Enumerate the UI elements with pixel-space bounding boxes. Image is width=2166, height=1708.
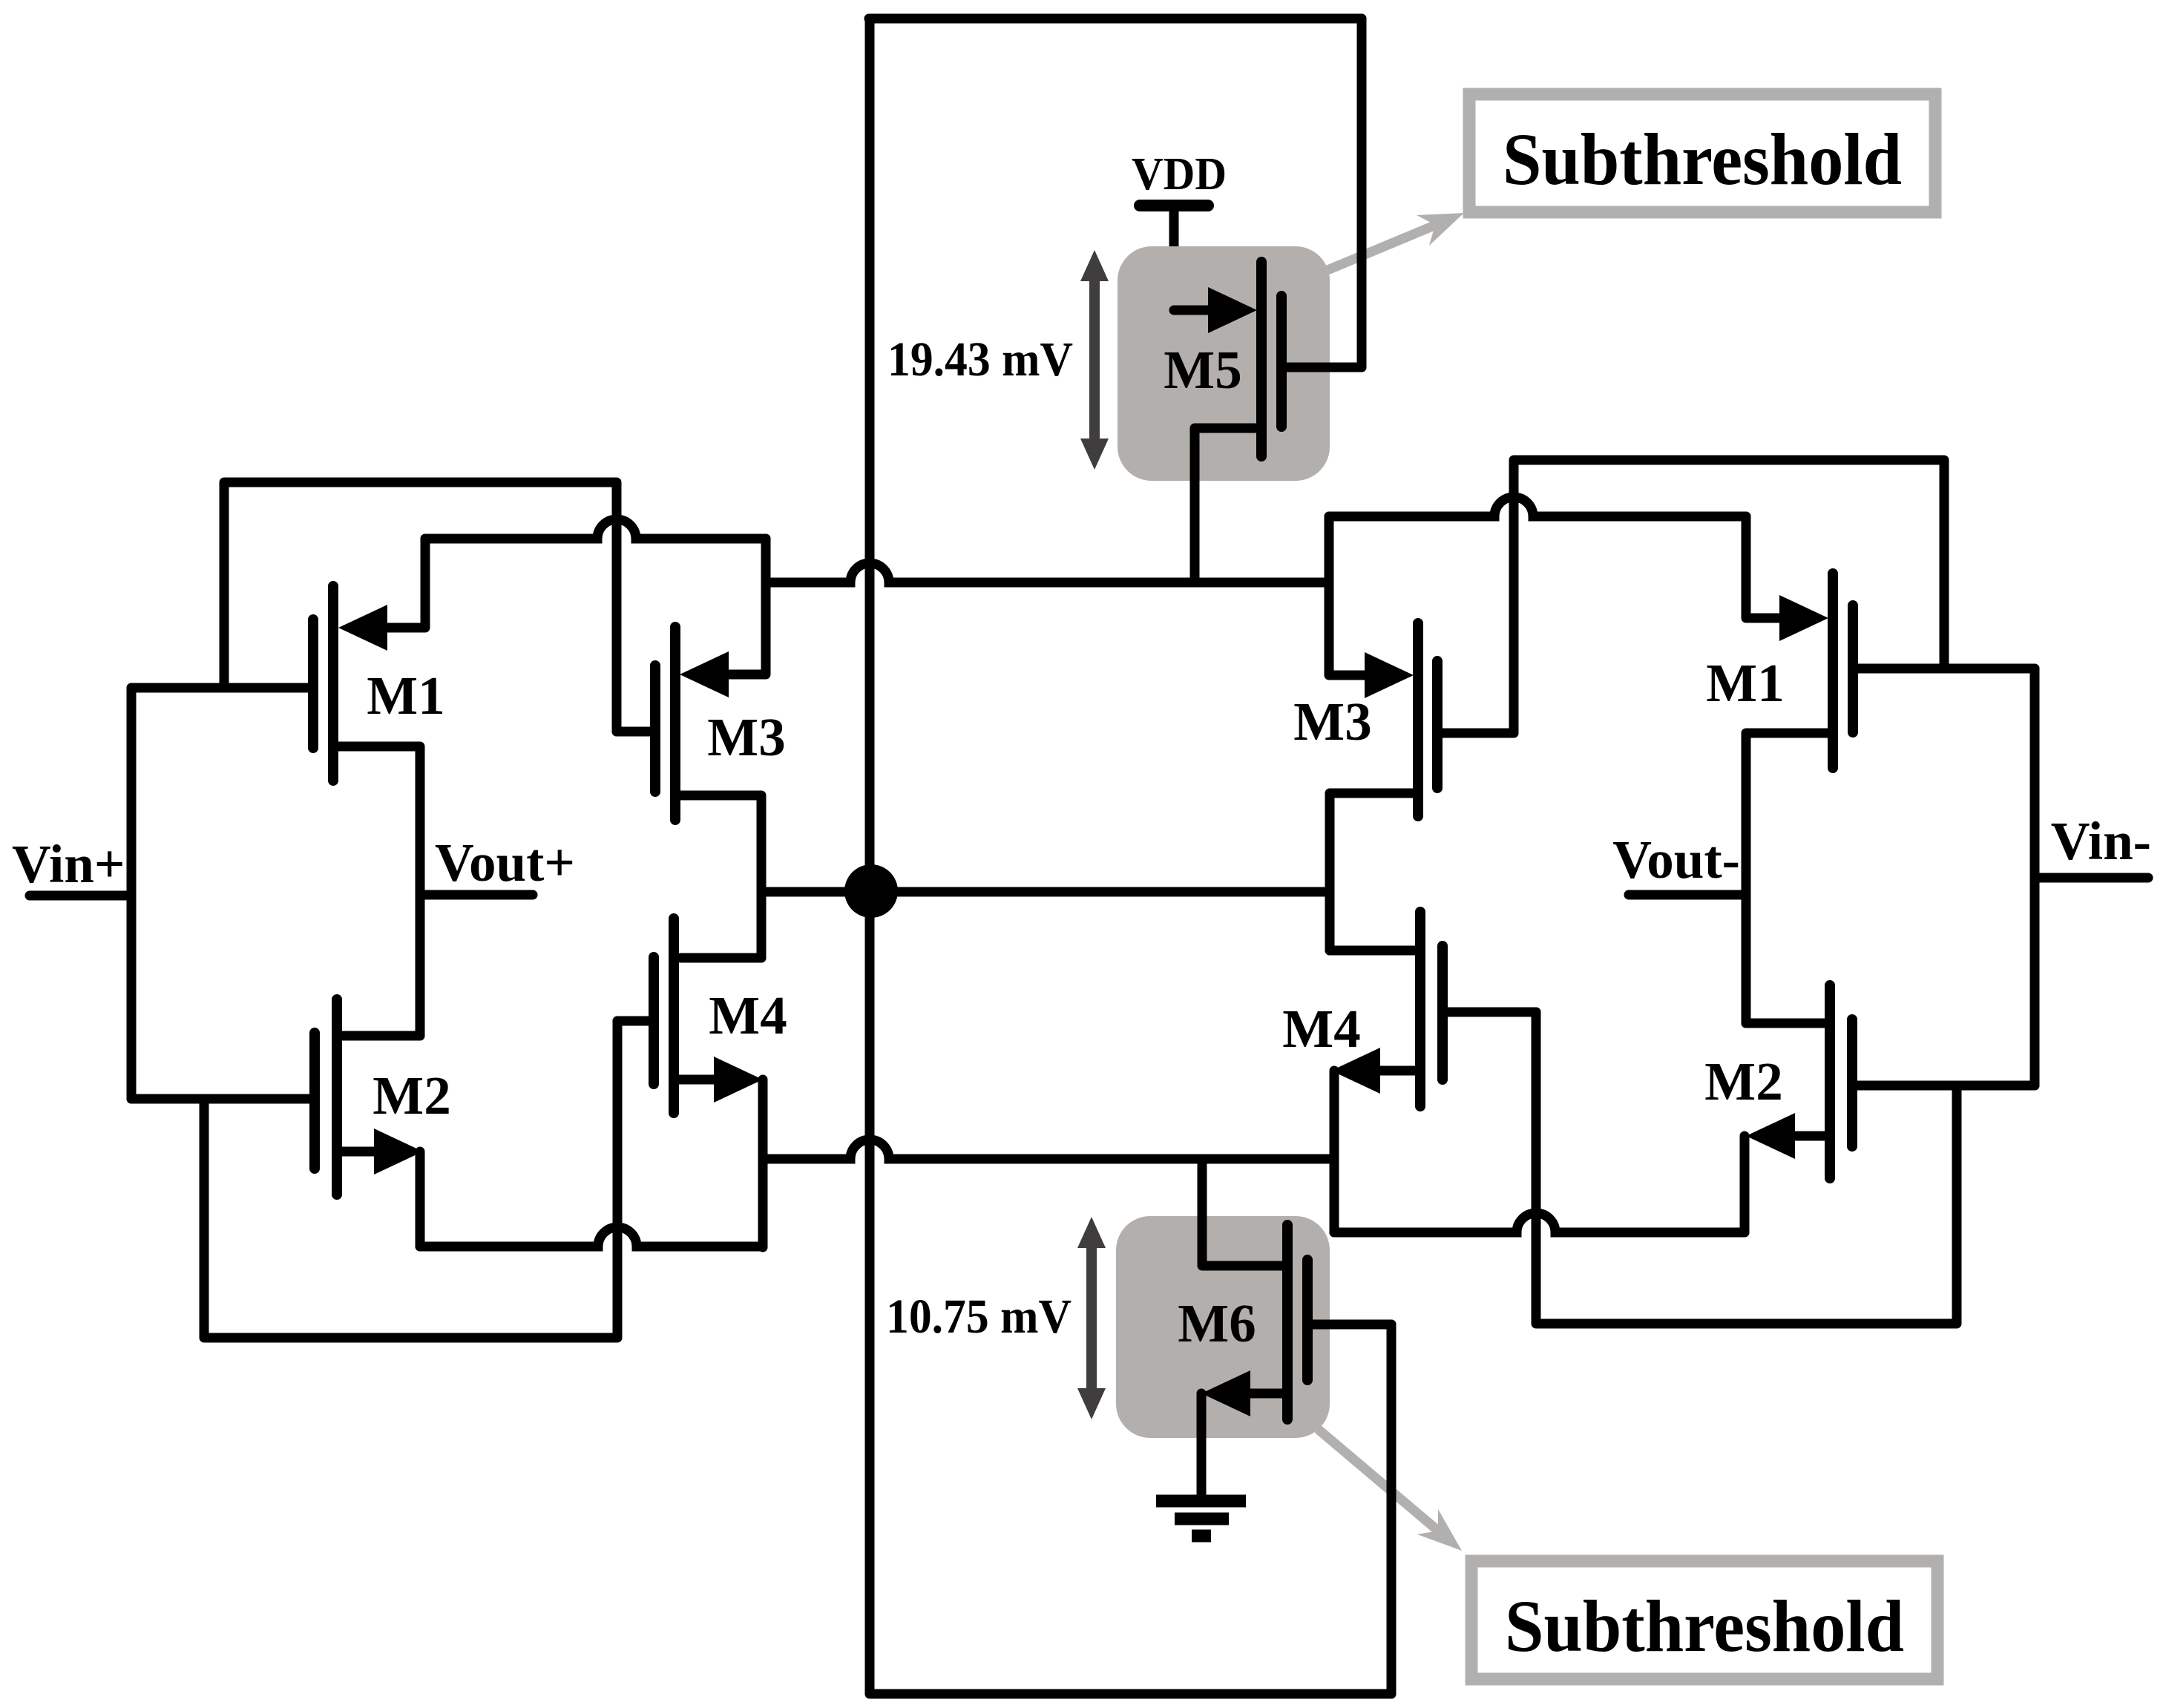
- transistor M1 drain lead with arrow: [338, 539, 425, 651]
- wire: right bottom feedback loop (M4 gate to M2 gate): [1536, 1012, 1957, 1324]
- svg-text:M2: M2: [373, 1065, 450, 1126]
- dimension double-arrow 19.43 mV: [1080, 250, 1109, 470]
- svg-text:M4: M4: [709, 985, 787, 1045]
- ground symbol: [1156, 1501, 1246, 1536]
- svg-text:M1: M1: [367, 666, 444, 726]
- transistor M4 (right) gate bar: [1437, 946, 1448, 1080]
- transistor M1 (right) source lead: [1746, 733, 1828, 1023]
- callout arrow to top Subthreshold box: [1328, 213, 1464, 270]
- transistor M5 gate bar: [1276, 296, 1287, 427]
- transistor M5 source lead: [1195, 428, 1261, 582]
- wire: Vout+ lead: [420, 890, 533, 900]
- wire: right M2-source horizontal to M4 source, hops M4-gate vertical: [1334, 1213, 1745, 1232]
- transistor M1 (right) drain lead with arrow: [1746, 516, 1828, 641]
- transistor M2 (right) source lead with arrow: [1745, 1113, 1825, 1232]
- transistor M1 gate lead: [131, 683, 313, 693]
- transistor M1 (right) label: [1706, 653, 1784, 713]
- transistor M5 gray highlight box: [1118, 246, 1330, 481]
- transistor M3 (right) drain lead with arrow: [1329, 516, 1414, 698]
- transistor M1 channel bar: [328, 586, 338, 781]
- transistor M2 gate lead: [131, 1094, 315, 1104]
- transistor M1 label: [367, 666, 444, 726]
- transistor M3 (right) gate lead: [1437, 729, 1514, 738]
- callout label Subthreshold (bottom): [1505, 1585, 1904, 1667]
- svg-text:Vout-: Vout-: [1612, 830, 1740, 890]
- svg-text:M6: M6: [1178, 1293, 1256, 1353]
- svg-text:10.75 mV: 10.75 mV: [886, 1290, 1071, 1344]
- transistor M3 label: [707, 707, 785, 767]
- port label Vout+: [435, 832, 575, 893]
- transistor M2 (right) channel bar: [1825, 985, 1835, 1178]
- wire: upper bus (left cell to right cell, hops central vertical): [766, 563, 1329, 582]
- port label Vin+: [12, 834, 125, 894]
- transistor M2 channel bar: [332, 999, 342, 1195]
- transistor M6 gate lead: [1312, 1320, 1391, 1330]
- wire: left M2-source horizontal to M4 source, hops M4-gate vertical: [420, 1227, 763, 1246]
- svg-text:19.43 mV: 19.43 mV: [887, 332, 1073, 387]
- svg-text:Vin-: Vin-: [2051, 811, 2151, 871]
- svg-text:Vout+: Vout+: [435, 832, 575, 893]
- transistor M3 gate lead: [617, 727, 655, 737]
- transistor M2 (right) gate bar: [1847, 1019, 1857, 1146]
- wire: Vin+ lead: [30, 891, 131, 901]
- transistor M3 channel bar: [670, 627, 680, 820]
- transistor M1 (right) gate bar: [1848, 605, 1858, 732]
- transistor M4 drain lead: [680, 953, 761, 963]
- transistor M1 source lead: [338, 746, 420, 1036]
- transistor M3 source lead: [680, 795, 761, 958]
- transistor M2 drain lead: [337, 1031, 420, 1041]
- transistor M4 label: [709, 985, 787, 1045]
- wire: right cross-couple rail (M3 gate to M1 gate): [1514, 460, 1944, 733]
- transistor M5 drain lead with arrow: [1174, 287, 1257, 333]
- transistor M5 label: [1164, 340, 1241, 400]
- transistor M2 (right) gate lead: [1852, 1081, 2035, 1091]
- dimension double-arrow 10.75 mV: [1077, 1217, 1106, 1419]
- transistor M6 source lead with arrow: [1201, 1370, 1287, 1495]
- transistor M2 label: [373, 1065, 450, 1126]
- value label 19.43 mV: [887, 332, 1073, 387]
- wire: left bottom feedback loop (M2 gate to M4 gate): [204, 1021, 617, 1338]
- wire: bottom box right side up to M6 gate: [1387, 1324, 1397, 1694]
- wire: Vin- lead: [2035, 873, 2148, 883]
- wire: top box top edge: [869, 14, 1362, 24]
- svg-text:M5: M5: [1164, 340, 1241, 400]
- transistor M1 (right) channel bar: [1828, 574, 1838, 768]
- port label Vout-: [1612, 830, 1740, 890]
- net label VDD: [1132, 149, 1227, 200]
- node VDD symbol: [1140, 206, 1208, 310]
- transistor M4 (right) label: [1282, 999, 1360, 1059]
- transistor M1 (right) gate lead: [1858, 664, 2035, 674]
- svg-text:Subthreshold: Subthreshold: [1505, 1585, 1904, 1667]
- transistor M6 label: [1178, 1293, 1256, 1353]
- svg-text:M3: M3: [707, 707, 785, 767]
- callout box Subthreshold (bottom): [1471, 1561, 1937, 1679]
- transistor M1 gate bar: [308, 620, 318, 748]
- transistor M6 drain lead: [1202, 1159, 1283, 1266]
- transistor M6 channel bar: [1282, 1225, 1293, 1419]
- transistor M6 gray highlight box: [1116, 1216, 1330, 1438]
- value label 10.75 mV: [886, 1290, 1071, 1344]
- transistor M2 gate bar: [309, 1033, 320, 1169]
- transistor M4 (right) channel bar: [1415, 912, 1425, 1106]
- wire: lower bus (left cell to right cell, hops central vertical): [763, 1140, 1334, 1159]
- transistor M6 gate bar: [1302, 1260, 1313, 1380]
- transistor M3 (right) label: [1293, 692, 1371, 752]
- transistor M2 (right) drain lead: [1746, 1019, 1825, 1028]
- transistor M2 (right) label: [1704, 1051, 1782, 1111]
- transistor M4 channel bar: [669, 919, 679, 1113]
- wire: left cross-couple rail (M1 gate to M3 gate): [224, 482, 617, 732]
- wire: Vout- lead: [1629, 890, 1745, 900]
- transistor M4 gate bar: [649, 957, 659, 1084]
- wire: top box right side down to M5 gate: [1357, 19, 1367, 367]
- svg-text:M3: M3: [1293, 692, 1371, 752]
- transistor M5 channel bar: [1256, 262, 1267, 456]
- svg-text:M2: M2: [1704, 1051, 1782, 1111]
- wire: central vertical (top box left side down to bottom box): [865, 19, 875, 1694]
- transistor M4 source lead with arrow: [679, 1057, 763, 1247]
- wire: left input vertical (Vin+ to M1/M2 gates): [127, 688, 137, 1099]
- transistor M3 gate bar: [650, 666, 660, 792]
- transistor M4 (right) gate lead: [1443, 1008, 1536, 1017]
- transistor M3 drain lead with arrow: [680, 539, 766, 697]
- transistor M3 (right) gate bar: [1432, 661, 1443, 788]
- wire: bottom box bottom edge: [870, 1689, 1391, 1699]
- wire: left inner rail (M1 drain to M3 drain), hops cross-couple vertical: [425, 519, 766, 539]
- wire: right input vertical (M1 gate to M2 gate): [2030, 669, 2040, 1085]
- callout box Subthreshold (top): [1469, 94, 1935, 212]
- callout label Subthreshold (top): [1503, 118, 1902, 200]
- transistor M4 (right) source lead with arrow: [1331, 1048, 1416, 1232]
- svg-text:M4: M4: [1282, 999, 1360, 1059]
- wire: center bus (Vout node line): [761, 887, 1330, 897]
- svg-text:M1: M1: [1706, 653, 1784, 713]
- callout arrow to bottom Subthreshold box: [1318, 1429, 1462, 1551]
- transistor M4 gate lead: [617, 1016, 654, 1026]
- node junction dot (center bus / central vertical): [844, 864, 898, 918]
- svg-text:Vin+: Vin+: [12, 834, 125, 894]
- transistor M5 gate lead: [1286, 363, 1362, 372]
- transistor M2 source lead with arrow: [342, 1129, 423, 1246]
- port label Vin-: [2051, 811, 2151, 871]
- transistor M3 (right) channel bar: [1413, 623, 1423, 816]
- transistor M3 (right) source lead: [1330, 793, 1414, 950]
- transistor M4 (right) drain lead: [1330, 946, 1416, 956]
- wire: right inner rail (M3 drain to M1 drain), hops cross-couple vertical: [1329, 497, 1746, 516]
- svg-text:Subthreshold: Subthreshold: [1503, 118, 1902, 200]
- svg-text:VDD: VDD: [1132, 149, 1227, 200]
